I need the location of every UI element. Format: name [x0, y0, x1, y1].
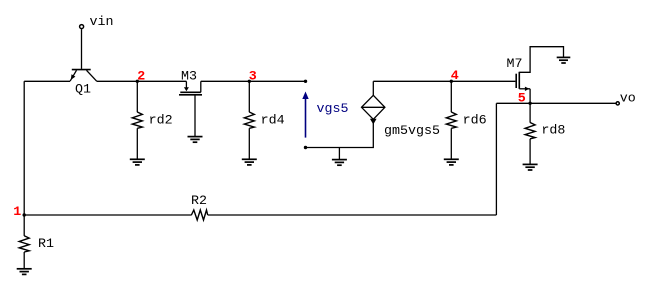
wire M3 to node 3 to stub — [201, 80, 306, 82]
terminal vo — [616, 102, 619, 105]
resistor rd4 — [244, 81, 254, 159]
svg-text:vo: vo — [620, 92, 636, 107]
svg-text:rd2: rd2 — [149, 114, 173, 129]
ground R1 — [17, 269, 32, 275]
svg-text:vgs5: vgs5 — [317, 102, 349, 117]
wire bottom of source — [306, 119, 374, 147]
terminal vin — [80, 25, 84, 29]
wire bottom left segment — [24, 214, 191, 216]
svg-text:R1: R1 — [38, 237, 54, 252]
svg-text:1: 1 — [13, 205, 21, 220]
svg-text:rd6: rd6 — [463, 114, 487, 129]
ground rd2 — [130, 159, 145, 165]
arrow vgs5 — [302, 92, 308, 138]
svg-text:rd4: rd4 — [261, 114, 285, 129]
ground rd6 — [444, 159, 459, 165]
ground rd8 — [523, 164, 538, 170]
resistor rd2 — [132, 81, 142, 159]
node stub dot top — [304, 80, 307, 83]
wire left drop to R2 — [495, 103, 497, 215]
wire source top to node 4 to M7 gate — [373, 80, 515, 82]
transistor Q1 — [70, 70, 97, 82]
resistor R2 — [191, 210, 207, 220]
transistor M3 — [179, 81, 202, 136]
ground rd4 — [242, 159, 257, 165]
node 2 — [136, 80, 139, 83]
ground mid — [332, 148, 347, 166]
node 1 — [23, 213, 26, 216]
svg-text:3: 3 — [249, 69, 257, 84]
wire vin lead — [81, 29, 83, 69]
svg-text:5: 5 — [518, 91, 526, 106]
svg-text:M7: M7 — [507, 57, 523, 72]
ground M7 drain — [557, 57, 571, 63]
svg-text:vin: vin — [90, 15, 114, 30]
resistor rd8 — [525, 103, 535, 164]
node stub dot bottom — [304, 146, 307, 149]
svg-text:gm5vgs5: gm5vgs5 — [384, 124, 440, 139]
svg-text:2: 2 — [137, 69, 145, 84]
node 3 — [248, 80, 251, 83]
node 4 — [450, 80, 453, 83]
node 5 — [528, 102, 531, 105]
svg-text:R2: R2 — [191, 194, 207, 209]
wire emitter to left — [24, 80, 70, 82]
dependent source gm5vgs5 — [362, 81, 385, 124]
resistor rd6 — [446, 81, 456, 159]
wire left vertical — [23, 81, 25, 215]
resistor R1 — [19, 215, 29, 269]
svg-text:Q1: Q1 — [75, 83, 91, 98]
wire bottom right segment — [208, 214, 497, 216]
wire node5 rail — [496, 102, 615, 104]
svg-text:M3: M3 — [181, 69, 197, 84]
ground M3 — [188, 137, 203, 143]
wire collector to node 2 to M3 — [97, 80, 187, 82]
svg-text:rd8: rd8 — [541, 124, 565, 139]
transistor M7 — [516, 47, 563, 104]
